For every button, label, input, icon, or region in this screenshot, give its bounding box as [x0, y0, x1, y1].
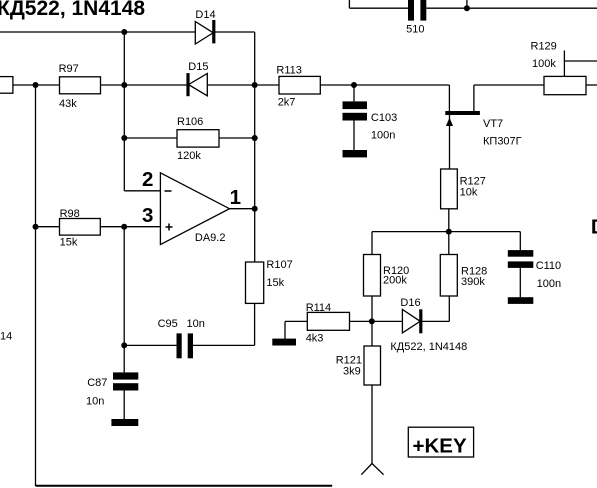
resistor R113 [279, 76, 320, 94]
svg-text:100n: 100n [371, 130, 395, 142]
svg-text:4k3: 4k3 [306, 333, 324, 345]
svg-text:100n: 100n [537, 278, 561, 290]
wire D16 to R128 bottom [421, 320, 449, 322]
svg-text:R113: R113 [276, 65, 301, 77]
wire VT7 drain [473, 85, 475, 112]
node 510 wire [464, 5, 470, 11]
wire down to R120 [371, 232, 373, 255]
svg-text:D15: D15 [188, 61, 208, 73]
svg-text:3: 3 [142, 204, 153, 227]
wire R97 to D15 [100, 84, 187, 86]
resistor R129 [544, 76, 586, 94]
wire down to C110 [519, 232, 521, 251]
wire main horizontal net y=85 left part [13, 84, 60, 86]
wire R127 bottom to R128 top [448, 209, 450, 255]
ground near R114 [272, 339, 296, 346]
svg-text:R98: R98 [60, 208, 80, 220]
ground near C87 [111, 419, 138, 426]
svg-text:10k: 10k [460, 186, 478, 198]
svg-text:14: 14 [0, 330, 12, 342]
svg-text:C110: C110 [536, 260, 561, 272]
svg-text:D14: D14 [195, 9, 215, 21]
capacitor C110 plates [508, 250, 534, 268]
wire top net y=32 [0, 31, 195, 33]
node op-amp output [252, 206, 258, 212]
svg-text:120k: 120k [177, 150, 201, 162]
resistor R98 [60, 219, 101, 236]
ground near C110 [508, 297, 534, 304]
op-amp plus sign [166, 224, 173, 231]
resistor R106 [177, 130, 219, 147]
diode D16 [402, 309, 420, 333]
wire R114 left to ground [285, 320, 307, 322]
box +KEY [408, 427, 473, 457]
wire R129 wiper [563, 51, 565, 77]
wire vertical x=124.2 down to C87 [123, 227, 125, 373]
node R127 bottom [446, 229, 452, 235]
wire left border vertical x=35.5 [35, 85, 37, 486]
wire C95 left [124, 344, 176, 346]
svg-text:D16: D16 [400, 297, 420, 309]
wire D15 to R113 [207, 84, 279, 86]
svg-text:2k7: 2k7 [278, 96, 296, 108]
wire stub up from junction [466, 0, 468, 8]
wire up to R107 bottom [254, 303, 256, 345]
resistor R127 [441, 169, 458, 209]
svg-text:10n: 10n [86, 396, 104, 408]
resistor R121 [364, 346, 381, 385]
node R114/D16/R121 [369, 318, 375, 324]
node C103 [351, 82, 357, 88]
wire R98 left [36, 226, 60, 228]
svg-text:R97: R97 [59, 63, 79, 75]
wire R98 to op-amp pin3 [100, 226, 160, 228]
svg-text:КП307Г: КП307Г [483, 135, 522, 147]
wire op-amp output [230, 208, 255, 210]
wire R114 right to D16 [350, 320, 403, 322]
capacitor C103 plates [343, 101, 368, 120]
node top wire / x=124 [121, 29, 127, 35]
wire fork legs [361, 464, 372, 475]
resistor R97 [60, 77, 101, 94]
resistor R107 [246, 262, 264, 303]
svg-text:10n: 10n [187, 318, 205, 330]
node D14/D15/R113 [252, 82, 258, 88]
capacitor C95 plates [177, 333, 194, 358]
wire R106 left [124, 137, 177, 139]
wire horizontal y=231.6 [372, 231, 520, 233]
svg-text:15k: 15k [60, 237, 78, 249]
wire C103 drop [353, 85, 355, 101]
svg-text:R107: R107 [266, 259, 292, 271]
resistor cut at left edge [0, 77, 13, 94]
svg-text:КД522, 1N4148: КД522, 1N4148 [390, 341, 467, 353]
wire R121 bottom lead [371, 385, 373, 464]
svg-text:510: 510 [406, 24, 424, 36]
svg-text:3k9: 3k9 [343, 365, 361, 377]
wire R113 to VT7 gate corner [320, 84, 449, 86]
svg-text:200k: 200k [383, 274, 407, 286]
wire vertical x=254.7 from top to R107 [254, 32, 256, 262]
svg-text:C103: C103 [371, 112, 397, 124]
wire C95 to R107 corner [193, 344, 255, 346]
wire R129 right [586, 84, 597, 86]
node pin3 [121, 224, 127, 230]
svg-text:DA9.2: DA9.2 [195, 232, 226, 244]
wire gate drop [448, 85, 450, 112]
svg-text:КД522, 1N4148: КД522, 1N4148 [0, 0, 145, 20]
op-amp U DA9.2 [160, 173, 229, 245]
wire D14 cathode to corner [214, 31, 255, 33]
ground near C103 [343, 150, 368, 157]
capacitor C87 plates [113, 372, 138, 390]
wire C87 to ground [123, 391, 125, 420]
resistor R120 [364, 255, 381, 297]
transistor VT7 channel bar [445, 111, 480, 115]
svg-text:43k: 43k [59, 98, 77, 110]
wire vertical x=124.3 [123, 32, 125, 191]
node C95/C87 [121, 342, 127, 348]
svg-text:VT7: VT7 [483, 118, 503, 130]
node R97 left [33, 82, 39, 88]
diode D14 [195, 20, 214, 44]
resistor R114 [307, 312, 349, 330]
svg-text:R129: R129 [531, 40, 557, 52]
svg-text:D: D [591, 216, 597, 239]
svg-text:R114: R114 [306, 302, 331, 314]
resistor R128 [440, 255, 457, 297]
wire op-amp pin2 [124, 190, 160, 192]
wire bottom rail [36, 485, 333, 487]
node R106 right [252, 135, 258, 141]
svg-text:100k: 100k [532, 58, 556, 70]
svg-text:C87: C87 [87, 377, 107, 389]
svg-text:390k: 390k [461, 276, 485, 288]
node R106 left [121, 135, 127, 141]
svg-text:C95: C95 [158, 318, 178, 330]
svg-text:+KEY: +KEY [413, 435, 467, 458]
wire VT7 source to R127 [449, 115, 451, 169]
node R98 left [33, 224, 39, 230]
wire R106 right [219, 137, 255, 139]
op-amp minus sign [165, 190, 172, 192]
transistor VT7 source arrow [446, 118, 453, 127]
svg-text:R106: R106 [177, 116, 203, 128]
svg-text:15k: 15k [266, 277, 284, 289]
svg-text:2: 2 [142, 168, 153, 191]
capacitor 510 plates [408, 0, 426, 21]
diode D15 [188, 73, 207, 96]
wire 510 net [348, 0, 350, 8]
node R97 right [121, 82, 127, 88]
wire R120 bottom to junction [371, 296, 373, 346]
svg-text:1: 1 [230, 186, 241, 209]
